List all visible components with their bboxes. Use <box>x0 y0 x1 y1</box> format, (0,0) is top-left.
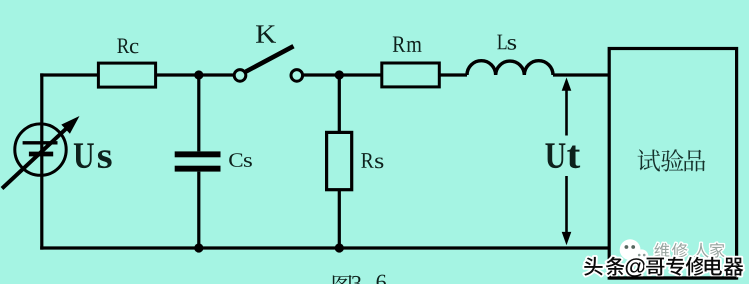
watermark line2 头条 <box>584 257 625 276</box>
source Us short thick plate <box>29 152 53 157</box>
wire: Rm to Ls <box>439 73 467 76</box>
source Us circle <box>15 124 66 175</box>
voltage arrow Ut upper head <box>562 78 572 91</box>
node: junction dot bottom wire / Cs branch <box>194 243 203 252</box>
watermark logo small bubble eyes <box>638 254 641 257</box>
switch K right terminal <box>291 70 303 82</box>
label Rs <box>361 153 383 168</box>
resistor Rs <box>327 132 352 189</box>
label Ut <box>545 143 580 168</box>
watermark line1 维修人家 (gray, white halo) <box>654 243 724 258</box>
label 试验品 (test specimen) <box>638 149 706 171</box>
watermark logo big bubble eyes <box>625 245 629 249</box>
label Cs <box>229 153 252 167</box>
caption 图 (figure label, clipped at bottom) <box>333 275 352 284</box>
node: junction dot bottom wire / Rs branch <box>335 243 344 252</box>
watermark line2 @ <box>626 258 645 276</box>
label Ls <box>497 35 516 50</box>
watermark logo small chat bubble <box>635 249 649 263</box>
caption 3-6 <box>352 275 386 284</box>
test object box bottom edge over watermark halo <box>609 276 736 279</box>
switch K blade <box>246 46 294 71</box>
source Us adjustable arrow head <box>61 116 79 134</box>
resistor Rm <box>382 63 440 87</box>
label K <box>256 25 276 42</box>
label Rc <box>117 39 138 54</box>
label Rm <box>393 37 422 52</box>
wire: bottom return <box>40 246 609 249</box>
wire: switch right terminal to Rm <box>303 73 382 76</box>
wire: left vertical through source Us <box>40 73 43 249</box>
capacitor Cs top plate <box>175 151 221 157</box>
node: junction dot top wire / Rs branch <box>335 70 344 79</box>
voltage arrow Ut shaft (gap at label) <box>565 86 568 238</box>
resistor Rc <box>98 63 155 87</box>
source Us adjustable arrow shaft <box>2 129 66 189</box>
wire: Rc to switch left terminal <box>156 73 235 76</box>
wire: Rs branch vertical (gap at box) <box>338 75 341 248</box>
test object box <box>609 49 736 279</box>
voltage arrow Ut lower head <box>562 232 572 245</box>
capacitor Cs bottom plate <box>175 166 221 172</box>
source Us long plate <box>23 141 58 144</box>
wire: Ls to test box <box>553 73 609 76</box>
node: junction dot top wire / Cs branch <box>194 70 203 79</box>
wire: top, source corner to Rc <box>40 73 98 76</box>
switch K left terminal <box>234 70 246 82</box>
watermark logo big chat bubble <box>620 239 641 260</box>
inductor Ls <box>467 61 553 75</box>
watermark line2 哥专修电器 <box>646 257 743 276</box>
wire: Cs branch vertical (gap at plates) <box>197 75 200 248</box>
label Us <box>74 143 112 168</box>
